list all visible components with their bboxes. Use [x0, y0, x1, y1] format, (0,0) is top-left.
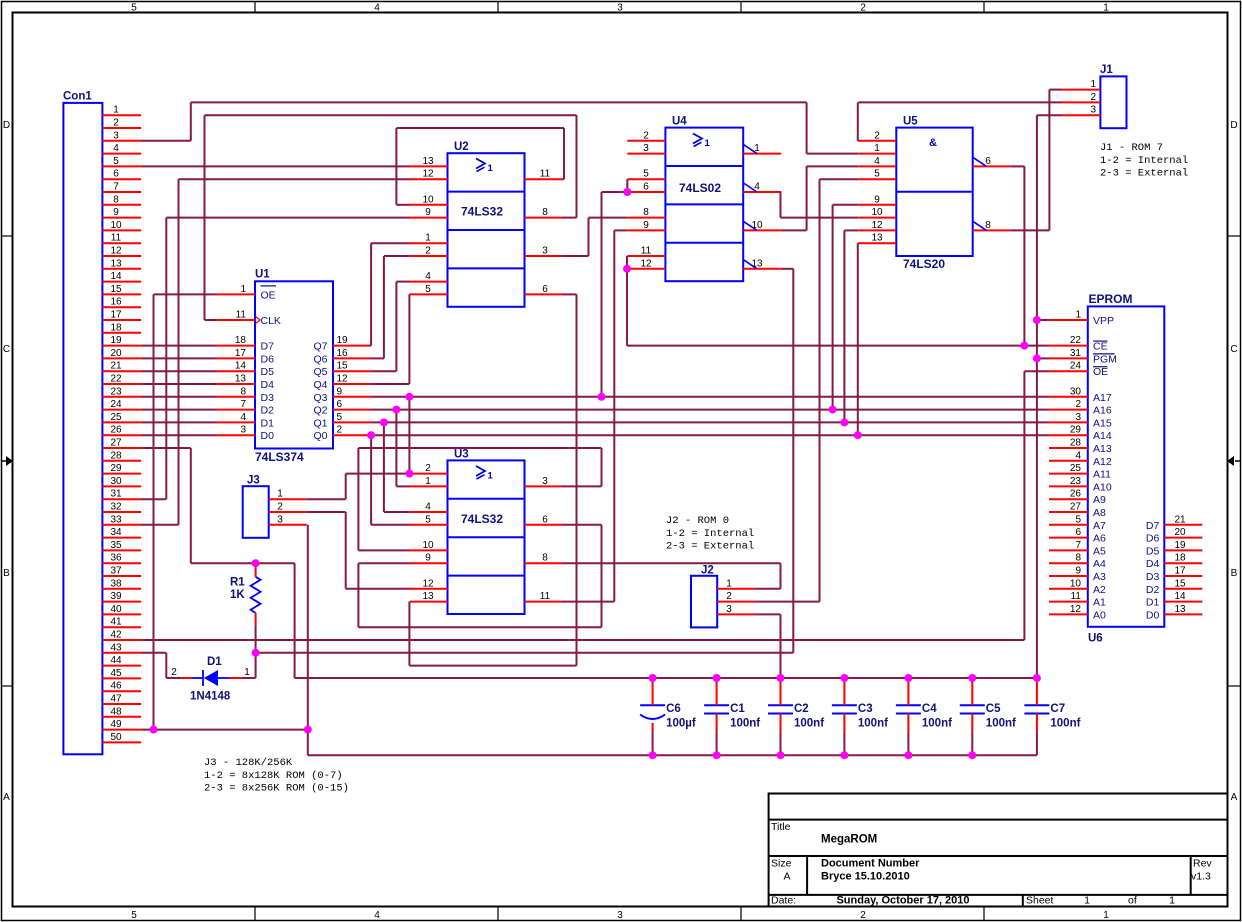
- svg-text:41: 41: [110, 617, 122, 628]
- svg-text:C4: C4: [922, 703, 937, 715]
- svg-text:A14: A14: [1093, 430, 1112, 442]
- svg-text:C: C: [1230, 344, 1237, 355]
- svg-text:D2: D2: [261, 405, 275, 417]
- svg-text:12: 12: [422, 169, 434, 180]
- capacitor C5 value: [986, 718, 1016, 730]
- svg-text:3: 3: [617, 3, 623, 14]
- svg-text:D1: D1: [207, 656, 222, 668]
- svg-text:47: 47: [110, 694, 122, 705]
- svg-text:1: 1: [240, 284, 246, 295]
- ic U1 left pin labels: [261, 286, 281, 442]
- capacitor C3 body: [832, 705, 857, 713]
- svg-text:28: 28: [110, 450, 122, 461]
- capacitor C6 leads: [652, 678, 654, 755]
- jumper J2 outline: [691, 576, 717, 628]
- svg-text:6: 6: [542, 514, 548, 525]
- capacitor C5 reflabel: [986, 703, 1001, 715]
- svg-text:13: 13: [422, 156, 434, 167]
- svg-text:10: 10: [110, 220, 122, 231]
- svg-text:A5: A5: [1093, 545, 1106, 557]
- ic U5 and-symbol: [929, 137, 937, 149]
- svg-text:D6: D6: [1146, 533, 1160, 545]
- svg-text:30: 30: [110, 476, 122, 487]
- capacitor C2 value: [794, 718, 824, 730]
- svg-text:A: A: [783, 871, 790, 883]
- svg-text:B: B: [3, 568, 10, 579]
- svg-text:3: 3: [1090, 105, 1096, 116]
- ic U6 left pin stubs: [1049, 320, 1088, 614]
- svg-text:D7: D7: [1146, 520, 1160, 532]
- jumper J1 pin stubs: [1062, 90, 1100, 116]
- svg-text:20: 20: [110, 348, 122, 359]
- svg-text:&: &: [929, 137, 937, 149]
- svg-text:A7: A7: [1093, 520, 1106, 532]
- svg-text:14: 14: [1174, 591, 1186, 602]
- svg-text:11: 11: [540, 169, 551, 180]
- capacitor C7 reflabel: [1050, 703, 1065, 715]
- wire net U5.8 to J1.1: [1011, 90, 1063, 231]
- jumper J2 pin stubs: [717, 589, 755, 615]
- svg-text:A6: A6: [1093, 533, 1106, 545]
- wire net U2.11 to U2.10: [396, 128, 564, 205]
- wire net U3.3 to U3.10: [358, 448, 601, 550]
- capacitor C7 body: [1024, 705, 1049, 713]
- svg-text:B: B: [1231, 568, 1238, 579]
- svg-text:Q2: Q2: [313, 405, 327, 417]
- svg-text:21: 21: [110, 361, 122, 372]
- svg-text:74LS374: 74LS374: [255, 450, 304, 464]
- svg-text:46: 46: [110, 681, 122, 692]
- svg-text:J3 - 128K/256K: J3 - 128K/256K: [204, 757, 293, 769]
- svg-text:33: 33: [110, 514, 122, 525]
- svg-text:2: 2: [1075, 399, 1081, 410]
- svg-text:9: 9: [425, 553, 431, 564]
- ic U6 reflabel: [1088, 633, 1103, 645]
- svg-text:9: 9: [425, 207, 431, 218]
- svg-text:1: 1: [244, 667, 250, 678]
- connector Con1 pin numbers: [110, 105, 122, 743]
- diode D1 reflabel: [207, 656, 222, 668]
- wire nets Con1.19-26 to U1 data pins: [141, 346, 217, 436]
- capacitor C7 leads: [1036, 678, 1038, 755]
- ic U5 pin numbers: [871, 130, 991, 243]
- wire net U1.Q7 to U2.1: [371, 243, 409, 345]
- capacitor C4 body: [896, 705, 921, 713]
- svg-text:A16: A16: [1093, 405, 1112, 417]
- svg-text:13: 13: [110, 258, 122, 269]
- svg-text:D5: D5: [1146, 545, 1160, 557]
- svg-text:OE: OE: [1093, 366, 1108, 378]
- svg-text:10: 10: [422, 540, 434, 551]
- svg-text:U2: U2: [454, 141, 469, 153]
- svg-text:9: 9: [643, 220, 649, 231]
- capacitor C6 value: [666, 718, 696, 730]
- svg-text:1-2 = Internal: 1-2 = Internal: [1100, 155, 1188, 167]
- svg-text:C1: C1: [730, 703, 745, 715]
- wire net GND rail: [308, 754, 1037, 756]
- svg-text:39: 39: [110, 591, 122, 602]
- svg-text:14: 14: [110, 271, 122, 282]
- svg-text:D0: D0: [261, 430, 275, 442]
- svg-text:19: 19: [110, 335, 122, 346]
- svg-text:4: 4: [425, 502, 431, 513]
- svg-text:9: 9: [874, 194, 880, 205]
- svg-text:1: 1: [705, 138, 711, 149]
- svg-text:Date:: Date:: [771, 895, 796, 907]
- svg-text:11: 11: [540, 591, 551, 602]
- wire net D1.1 R1 U4.13 pull line: [242, 269, 794, 678]
- svg-text:4: 4: [1075, 450, 1081, 461]
- svg-text:74LS02: 74LS02: [679, 181, 721, 195]
- svg-text:CLK: CLK: [261, 315, 281, 327]
- svg-text:4: 4: [113, 143, 119, 154]
- svg-text:OE: OE: [261, 289, 276, 301]
- svg-text:5: 5: [1075, 514, 1081, 525]
- svg-text:11: 11: [1071, 591, 1082, 602]
- svg-text:Document Number: Document Number: [821, 858, 920, 870]
- svg-text:13: 13: [871, 233, 883, 244]
- svg-text:18: 18: [235, 335, 247, 346]
- capacitor C2 reflabel: [794, 703, 809, 715]
- svg-text:D7: D7: [261, 341, 275, 353]
- svg-text:8: 8: [542, 207, 548, 218]
- svg-text:C5: C5: [986, 703, 1001, 715]
- svg-text:38: 38: [110, 578, 122, 589]
- svg-text:Rev: Rev: [1193, 858, 1212, 870]
- wire net Q1/A15 bus: [371, 230, 1049, 512]
- svg-text:32: 32: [110, 502, 122, 513]
- svg-text:U3: U3: [454, 449, 469, 461]
- svg-text:26: 26: [110, 425, 122, 436]
- svg-text:36: 36: [110, 553, 122, 564]
- svg-text:1: 1: [1075, 310, 1081, 321]
- svg-text:20: 20: [1174, 527, 1186, 538]
- capacitor C7 value: [1050, 718, 1080, 730]
- svg-text:A12: A12: [1093, 456, 1112, 468]
- svg-text:8: 8: [240, 386, 246, 397]
- wire net J3.2 to U3.12: [307, 512, 410, 589]
- svg-text:27: 27: [1070, 502, 1082, 513]
- ic U5 pin stubs: [858, 141, 1010, 243]
- svg-text:3: 3: [643, 143, 649, 154]
- wire net VCC rail: [295, 677, 1037, 679]
- svg-text:100nf: 100nf: [922, 718, 952, 730]
- svg-text:A9: A9: [1093, 494, 1106, 506]
- svg-text:MegaROM: MegaROM: [821, 834, 877, 846]
- capacitor C3 leads: [843, 678, 845, 755]
- ic U6 right pin stubs: [1164, 525, 1202, 615]
- svg-text:11: 11: [111, 233, 122, 244]
- svg-text:Con1: Con1: [63, 91, 92, 103]
- svg-text:100µf: 100µf: [666, 718, 696, 730]
- svg-text:10: 10: [751, 220, 763, 231]
- svg-text:24: 24: [1070, 361, 1082, 372]
- ic U3 pin stubs: [410, 474, 563, 602]
- ic U4 or-symbol: [693, 134, 711, 150]
- svg-text:2: 2: [1090, 92, 1096, 103]
- svg-text:D1: D1: [261, 417, 275, 429]
- svg-text:5: 5: [131, 910, 137, 921]
- capacitor C1 body: [704, 705, 729, 713]
- svg-text:12: 12: [337, 374, 349, 385]
- svg-text:2-3 = 8x256K ROM (0-15): 2-3 = 8x256K ROM (0-15): [204, 783, 349, 795]
- svg-text:CE: CE: [1093, 341, 1108, 353]
- svg-text:43: 43: [110, 642, 122, 653]
- ic U4 74LS02 outline: [665, 128, 743, 282]
- svg-text:12: 12: [110, 246, 122, 257]
- ic U1 left pin stubs: [217, 294, 255, 435]
- svg-text:5: 5: [425, 284, 431, 295]
- svg-text:1: 1: [1169, 895, 1175, 907]
- svg-text:VPP: VPP: [1093, 315, 1114, 327]
- svg-text:4: 4: [374, 3, 380, 14]
- note J1 jumper text: [1100, 142, 1188, 180]
- svg-text:A10: A10: [1093, 481, 1112, 493]
- svg-text:A13: A13: [1093, 443, 1112, 455]
- svg-text:2: 2: [726, 591, 732, 602]
- svg-text:100nf: 100nf: [794, 718, 824, 730]
- wire net Con1.5 to U2.13: [141, 165, 409, 167]
- svg-text:C6: C6: [666, 703, 681, 715]
- wire net U3.8 to J2.1: [563, 563, 781, 589]
- svg-text:5: 5: [113, 156, 119, 167]
- svg-text:D2: D2: [1146, 584, 1160, 596]
- ic U2 or-symbol: [476, 159, 494, 175]
- svg-text:5: 5: [425, 514, 431, 525]
- capacitor C6 reflabel: [666, 703, 681, 715]
- wire net Q2/A16 bus: [371, 205, 1049, 487]
- capacitor C6 body: [640, 705, 665, 719]
- svg-text:19: 19: [1174, 540, 1186, 551]
- capacitor C5 leads: [971, 678, 973, 755]
- svg-text:1: 1: [1103, 910, 1109, 921]
- svg-text:2-3 = External: 2-3 = External: [1100, 168, 1188, 180]
- svg-text:D0: D0: [1146, 609, 1160, 621]
- jumper J1 reflabel: [1100, 64, 1113, 76]
- svg-text:9: 9: [113, 207, 119, 218]
- svg-text:6: 6: [542, 284, 548, 295]
- ic U2 partlabel 74LS32: [461, 205, 503, 219]
- svg-text:Q5: Q5: [313, 366, 327, 378]
- ic U3 partlabel 74LS32: [461, 512, 503, 526]
- svg-text:2: 2: [860, 910, 866, 921]
- svg-text:Q3: Q3: [313, 392, 327, 404]
- svg-text:48: 48: [110, 706, 122, 717]
- svg-text:A15: A15: [1093, 417, 1112, 429]
- svg-text:22: 22: [1070, 335, 1082, 346]
- ic U1 clock wedge pin11: [256, 316, 261, 323]
- ic U2 pin numbers: [422, 156, 550, 295]
- svg-text:49: 49: [110, 719, 122, 730]
- svg-text:1K: 1K: [230, 589, 245, 601]
- svg-text:A: A: [3, 792, 10, 803]
- ic U1 right pin labels: [313, 341, 327, 443]
- svg-text:Q0: Q0: [313, 430, 327, 442]
- svg-text:42: 42: [110, 630, 122, 641]
- svg-text:18: 18: [1174, 553, 1186, 564]
- wire net U1.Q5 to U2.4: [371, 282, 409, 372]
- jumper J2 pin numbers: [726, 578, 732, 615]
- svg-text:44: 44: [110, 655, 122, 666]
- svg-text:6: 6: [113, 169, 119, 180]
- svg-text:D5: D5: [261, 366, 275, 378]
- wire net U2.6 to U3.13: [409, 294, 576, 665]
- svg-text:37: 37: [110, 566, 122, 577]
- svg-text:C3: C3: [858, 703, 873, 715]
- ic U4 partlabel 74LS02: [679, 181, 721, 195]
- wire net U1.Q4 to U2.5: [371, 294, 409, 384]
- capacitor C1 leads: [716, 678, 718, 755]
- svg-text:1: 1: [754, 143, 760, 154]
- svg-text:17: 17: [110, 310, 122, 321]
- svg-text:100nf: 100nf: [730, 718, 760, 730]
- wire net U1.Q6 to U2.2: [371, 256, 409, 358]
- svg-text:9: 9: [1075, 566, 1081, 577]
- svg-text:27: 27: [110, 438, 122, 449]
- svg-text:5: 5: [643, 169, 649, 180]
- svg-text:D: D: [1230, 120, 1237, 131]
- svg-text:1: 1: [488, 163, 494, 174]
- wire net U3.11 to U4.9: [563, 230, 628, 601]
- note J3 jumper text: [204, 757, 349, 795]
- svg-text:Sheet: Sheet: [1026, 895, 1054, 907]
- svg-text:12: 12: [871, 220, 883, 231]
- svg-text:6: 6: [1075, 527, 1081, 538]
- svg-text:R1: R1: [230, 577, 245, 589]
- svg-text:12: 12: [1070, 604, 1082, 615]
- svg-text:8: 8: [643, 207, 649, 218]
- svg-text:3: 3: [240, 425, 246, 436]
- svg-text:2: 2: [113, 118, 119, 129]
- svg-text:12: 12: [640, 258, 652, 269]
- ic U2 reflabel: [454, 141, 469, 153]
- wire net U2.3 to U4.8: [563, 218, 628, 256]
- svg-text:23: 23: [110, 386, 122, 397]
- svg-text:15: 15: [1174, 578, 1186, 589]
- svg-text:13: 13: [422, 591, 434, 602]
- svg-text:1: 1: [874, 143, 880, 154]
- svg-text:C7: C7: [1050, 703, 1065, 715]
- svg-text:13: 13: [1174, 604, 1186, 615]
- svg-text:13: 13: [751, 258, 763, 269]
- svg-text:3: 3: [726, 604, 732, 615]
- svg-text:8: 8: [985, 220, 991, 231]
- svg-text:EPROM: EPROM: [1089, 292, 1133, 306]
- ic U2 pin stubs: [410, 166, 563, 294]
- svg-text:3: 3: [617, 910, 623, 921]
- ic U6 right pin numbers: [1174, 514, 1186, 615]
- wire net U4.4 to U5.10: [781, 192, 859, 218]
- wire net Con1.3 to U5.1: [141, 102, 858, 153]
- svg-text:4: 4: [874, 156, 880, 167]
- svg-text:1N4148: 1N4148: [190, 691, 231, 703]
- svg-text:D1: D1: [1146, 597, 1160, 609]
- capacitor C5 body: [960, 705, 985, 713]
- ic U6 left pin numbers: [1070, 310, 1082, 615]
- wire net Con1.31 to U2.9: [141, 218, 409, 500]
- svg-text:D3: D3: [261, 392, 275, 404]
- svg-text:U1: U1: [255, 269, 270, 281]
- svg-text:1: 1: [277, 489, 283, 500]
- svg-text:A0: A0: [1093, 609, 1106, 621]
- wire net Con1.49 GND row: [141, 729, 308, 731]
- svg-text:2: 2: [337, 425, 343, 436]
- ic U6 right pin labels: [1146, 520, 1160, 622]
- svg-text:26: 26: [1070, 489, 1082, 500]
- connector Con1 outline: [63, 103, 102, 754]
- svg-text:1: 1: [1090, 79, 1096, 90]
- jumper J3 pin numbers: [277, 489, 283, 526]
- svg-text:8: 8: [1075, 553, 1081, 564]
- svg-text:2: 2: [425, 463, 431, 474]
- svg-text:U4: U4: [672, 116, 687, 128]
- svg-text:1: 1: [1084, 895, 1090, 907]
- diode D1 partlabel 1N4148: [190, 691, 231, 703]
- svg-text:1: 1: [726, 578, 732, 589]
- jumper J1 pin numbers: [1090, 79, 1096, 116]
- svg-text:2: 2: [860, 3, 866, 14]
- jumper J3 outline: [243, 486, 269, 538]
- svg-text:24: 24: [110, 399, 122, 410]
- svg-text:Q7: Q7: [313, 341, 327, 353]
- svg-text:45: 45: [110, 668, 122, 679]
- svg-text:D4: D4: [1146, 558, 1160, 570]
- svg-text:D4: D4: [261, 379, 275, 391]
- wire net U1.OE to GND: [154, 294, 218, 729]
- centerline arrows: [2, 456, 1240, 466]
- connector Con1 pin stubs: [102, 115, 141, 742]
- svg-text:Sunday, October 17, 2010: Sunday, October 17, 2010: [836, 895, 969, 907]
- resistor R1 body: [251, 577, 261, 613]
- ic U4 pin numbers: [640, 130, 763, 269]
- svg-text:18: 18: [110, 322, 122, 333]
- connector Con1 reflabel: [63, 91, 92, 103]
- svg-text:31: 31: [110, 489, 122, 500]
- svg-text:3: 3: [113, 130, 119, 141]
- svg-text:A8: A8: [1093, 507, 1106, 519]
- svg-text:A3: A3: [1093, 571, 1106, 583]
- ic U5 reflabel: [903, 116, 918, 128]
- svg-text:25: 25: [110, 412, 122, 423]
- note J2 jumper text: [666, 515, 754, 553]
- svg-text:3: 3: [542, 246, 548, 257]
- jumper J1 outline: [1100, 76, 1126, 128]
- svg-text:7: 7: [1075, 540, 1081, 551]
- wire net U2.8 to U1.CLK: [205, 115, 577, 320]
- svg-text:31: 31: [1070, 348, 1082, 359]
- svg-text:8: 8: [113, 194, 119, 205]
- wire net U4.10 to U5.4: [781, 166, 858, 230]
- diode D1 leads: [181, 677, 242, 679]
- svg-text:C: C: [3, 344, 10, 355]
- svg-text:1: 1: [425, 233, 431, 244]
- svg-text:9: 9: [337, 386, 343, 397]
- svg-text:16: 16: [110, 297, 122, 308]
- svg-text:5: 5: [337, 412, 343, 423]
- jumper J3 pin stubs: [269, 499, 307, 525]
- svg-text:15: 15: [110, 284, 122, 295]
- svg-text:16: 16: [337, 348, 349, 359]
- ic U2 74LS32 outline: [448, 153, 525, 307]
- wire net U4.11/12 tie to CE net: [627, 166, 1049, 345]
- resistor R1 reflabel: [230, 577, 245, 589]
- svg-text:29: 29: [110, 463, 122, 474]
- svg-text:A17: A17: [1093, 392, 1112, 404]
- ic U6 EPROM outline: [1088, 306, 1165, 626]
- wire net Con1.42 to U6.OE: [141, 371, 1049, 640]
- ic U1 right pin numbers: [337, 335, 349, 436]
- svg-text:2: 2: [171, 667, 177, 678]
